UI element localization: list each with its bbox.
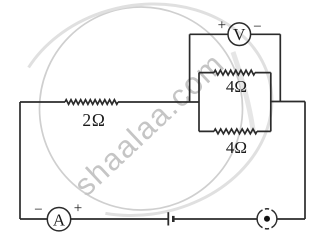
wire: left vertical of outer loop xyxy=(19,102,21,219)
wire: bottom branch leads xyxy=(199,130,271,132)
watermark swoosh outer xyxy=(29,4,272,216)
wire: voltmeter loop right vertical xyxy=(279,34,281,101)
resistor R 4ohm top zigzag xyxy=(214,70,255,75)
wire: top branch leads xyxy=(199,72,271,74)
ammeter A circle xyxy=(47,208,70,231)
wire: voltmeter loop top left segment xyxy=(190,33,228,35)
resistor R 2ohm zigzag xyxy=(65,100,118,105)
voltmeter V circle xyxy=(228,23,251,46)
wire: bottom segment key to right corner xyxy=(277,218,305,220)
svg-text:4Ω: 4Ω xyxy=(226,138,247,157)
svg-text:A: A xyxy=(53,210,66,229)
svg-text:+: + xyxy=(74,201,82,217)
wire: voltmeter loop top right segment xyxy=(251,33,281,35)
wire: mid horizontal right of 2ohm to parallel box xyxy=(118,101,199,103)
resistor R 4ohm bottom zigzag xyxy=(214,129,257,134)
svg-text:V: V xyxy=(233,25,246,44)
svg-text:−: − xyxy=(34,202,42,218)
wire: bottom segment ammeter to battery xyxy=(71,218,168,220)
svg-text:2Ω: 2Ω xyxy=(82,110,105,130)
wire: main mid horizontal (left part with 2ohm) xyxy=(20,101,65,103)
plug key center dot xyxy=(264,216,270,222)
watermark swoosh inner xyxy=(233,52,254,133)
wire: right vertical of outer loop xyxy=(304,102,306,220)
wire: parallel box left vertical xyxy=(198,73,200,132)
battery cell long plate xyxy=(167,212,169,225)
svg-text:+: + xyxy=(218,18,226,34)
wire: bottom left segment to ammeter xyxy=(20,218,47,220)
battery cell short plate xyxy=(172,216,175,222)
svg-text:−: − xyxy=(253,19,261,35)
svg-text:4Ω: 4Ω xyxy=(226,77,247,96)
plug key circle arcs xyxy=(257,209,277,229)
wire: parallel box right vertical xyxy=(270,73,272,132)
watermark circle xyxy=(40,7,243,210)
wire: junction horizontal to right vertical xyxy=(271,101,305,103)
wire: bottom segment battery to key xyxy=(174,218,258,220)
wire: voltmeter loop left vertical xyxy=(189,34,191,102)
